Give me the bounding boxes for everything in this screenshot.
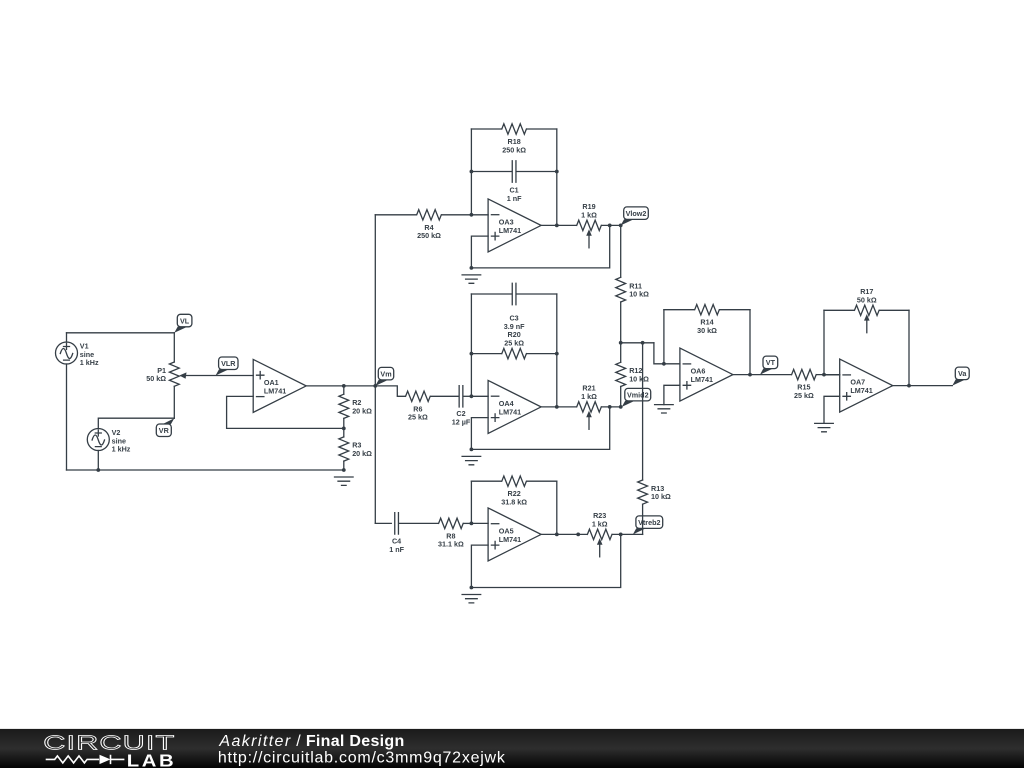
resistor R4 [417,210,442,220]
svg-text:20 kΩ: 20 kΩ [352,449,372,458]
node VLR [216,357,238,376]
wire OA4 + stub [471,418,488,450]
wire summing node horizontal [621,342,654,344]
svg-text:20 kΩ: 20 kΩ [352,406,372,415]
wire R3 top lead [343,428,345,437]
node VT [760,356,778,375]
wire Vm bus to C4 [375,522,391,524]
svg-text:Va: Va [958,369,967,378]
svg-text:LM741: LM741 [499,226,521,235]
resistor R6 [406,391,431,401]
wire Vm to R6 step [375,386,405,396]
R19 wiper arrow [586,229,592,248]
node feedback R2 R3 junction [342,427,346,431]
wire P1 top lead [173,333,175,362]
CircuitLab logo wordmark CIRCUIT [43,731,175,755]
svg-text:25 kΩ: 25 kΩ [504,338,524,347]
op-amp OA6 [680,348,733,401]
op-amp OA1 [253,359,306,412]
node mid filter ground junction [470,448,474,452]
wire V2 top [98,418,174,428]
svg-text:250 kΩ: 250 kΩ [502,145,526,154]
ground OA6 [655,405,674,413]
op-amp OA7 [840,359,893,412]
svg-text:30 kΩ: 30 kΩ [697,326,717,335]
wire R15 to OA7 [817,374,840,376]
op-amp OA3 [488,199,541,252]
potentiometer R23 [587,529,612,539]
node C1 right junction [555,170,559,174]
wire R19 to Vlow2 node [602,224,621,226]
wire feedback right vertical bottom filter [556,481,558,534]
resistor R13 [638,480,648,504]
capacitor C4 [395,513,399,534]
wire R23 to Vtreb2 node [613,533,643,535]
capacitor C1 [512,161,516,182]
ground mid filter [462,456,481,464]
resistor R11 [616,277,626,302]
svg-text:10 kΩ: 10 kΩ [629,374,649,383]
wire OA5 + stub [471,545,488,587]
svg-text:10 kΩ: 10 kΩ [629,290,649,299]
wire R4 to OA3 - node [442,214,471,216]
voltage source V2 [87,429,109,451]
node Vlow2 [621,207,649,226]
resistor R15 [792,369,817,379]
wire C1 right lead [517,171,557,173]
node R19 ground branch junction [608,224,612,228]
wire R12 top lead [620,343,622,363]
svg-text:VLR: VLR [221,359,236,368]
wire R20 left lead [471,353,501,355]
svg-text:1 kHz: 1 kHz [80,358,99,367]
node R11 R12 junction [619,341,623,345]
resistor R22 [502,476,527,486]
node OA7 inverting junction [822,373,826,377]
wire R20 right lead [527,353,557,355]
voltage source V1 [56,342,78,364]
potentiometer P1 [169,362,179,386]
wire R17 left lead [824,309,854,311]
svg-text:LM741: LM741 [264,386,286,395]
node C1 left junction [470,170,474,174]
svg-text:VT: VT [766,358,776,367]
wire OA6 output [733,374,791,376]
wire OA4 output [541,406,576,408]
svg-text:1 kHz: 1 kHz [112,445,131,454]
wire R2 bottom lead [343,418,345,428]
wire C2 to OA4 - node [464,395,472,397]
wire R14 left lead [664,309,694,311]
wire R18 left lead [471,128,501,130]
node Va [952,367,969,386]
wire OA7 output [893,385,953,387]
node OA4 output junction [555,405,559,409]
node Vmid2 junction [619,405,623,409]
node OA5 output wire junction [576,533,580,537]
ground top filter [462,275,481,283]
wire R17 left vertical [823,310,825,374]
wire R22 left lead [471,480,501,482]
wire R21 ground branch [471,407,609,450]
node Vmid2 [622,388,651,407]
resistor R14 [695,305,720,315]
wire R6 to C2 [431,395,458,397]
svg-text:1 nF: 1 nF [389,545,404,554]
R17 wiper arrow [864,314,870,333]
node Vlow2 junction [619,224,623,228]
svg-text:1 nF: 1 nF [507,194,522,203]
node R13 branch junction [641,341,645,345]
wire R14 right lead [720,309,750,311]
wire OA1 - feedback [227,396,344,428]
wire P1 bottom lead [173,386,175,418]
capacitor C2 [459,386,463,407]
node R23 ground branch junction [619,533,623,537]
footer bar [0,729,1024,768]
resistor R20 [502,348,527,358]
wire R13 branch vertical [642,343,644,480]
node R2 top junction [342,384,346,388]
wire R14 right vertical [749,310,751,375]
svg-text:25 kΩ: 25 kΩ [794,391,814,400]
node OA7 output junction [907,384,911,388]
wire C1 left lead [471,171,511,173]
svg-text:50 kΩ: 50 kΩ [857,295,877,304]
CircuitLab logo wordmark LAB [127,752,176,771]
R23 wiper arrow [597,538,603,557]
wire P1 wiper to OA1 + [185,375,253,377]
svg-text:12 µF: 12 µF [452,418,471,427]
wire OA5 - stub [471,522,488,524]
svg-text:10 kΩ: 10 kΩ [651,492,671,501]
wire OA3 + stub [471,236,488,268]
svg-text:1 kΩ: 1 kΩ [592,519,608,528]
wire OA6 + stub [664,385,680,404]
node Vm junction [373,384,377,388]
wire R17 right vertical [908,310,910,385]
wire R12 bottom lead [620,387,622,407]
node OA3 inverting input [470,213,474,217]
node R20 left junction [470,352,474,356]
svg-text:http://circuitlab.com/c3mm9q72: http://circuitlab.com/c3mm9q72xejwk [218,749,506,766]
capacitor C3 [512,283,516,304]
svg-text:50 kΩ: 50 kΩ [146,374,166,383]
wire R13 bottom lead [642,504,644,534]
wire R21 to Vmid2 node [602,406,621,408]
wire ground rail [67,469,344,471]
svg-text:LM741: LM741 [691,375,713,384]
wire R18 right lead [527,128,557,130]
resistor R8 [439,518,464,528]
potentiometer R21 [577,402,602,412]
op-amp OA5 [488,508,541,561]
wire OA5 output [541,533,587,535]
node Vm [375,367,393,386]
svg-text:25 kΩ: 25 kΩ [408,413,428,422]
wire R19 ground branch [471,225,609,268]
wire R23 ground branch [471,534,620,587]
node top filter ground junction [470,266,474,270]
wire Vm bus to R4 [375,214,416,216]
svg-text:31.8 kΩ: 31.8 kΩ [501,498,527,507]
wire OA4 - stub [471,395,488,397]
svg-text:Vmid2: Vmid2 [627,391,649,400]
ground below R3 [335,477,354,485]
svg-text:Vlow2: Vlow2 [626,209,647,218]
node OA4 inverting input [470,394,474,398]
potentiometer R19 [577,220,602,230]
svg-text:1 kΩ: 1 kΩ [581,392,597,401]
wire C3 left lead [471,293,511,295]
wire Vlow2 to R11 [620,225,622,277]
CircuitLab logo resistor-diode squiggle [46,756,99,763]
node VR [156,418,174,436]
node R21 ground branch junction [608,405,612,409]
wire V1 top to P1 top [67,332,175,334]
potentiometer R17 [855,305,880,315]
svg-text:1 kΩ: 1 kΩ [581,210,597,219]
node OA5 output junction [555,533,559,537]
wire C3 right lead [517,293,557,295]
resistor R12 [616,362,626,386]
node VL [174,314,192,333]
wire R3 bottom lead [343,461,345,470]
wire OA1 output [306,385,375,387]
wire V2 bottom stub [97,451,99,471]
wire feedback right vertical top filter [556,129,558,225]
node V2 bottom junction [96,468,100,472]
wire OA3 - stub [471,214,488,216]
node R20 right junction [555,352,559,356]
wire OA7 + stub [824,396,840,423]
svg-text:VL: VL [180,316,190,325]
wire R22 right lead [527,480,557,482]
wire feedback right vertical mid filter [556,294,558,407]
wire feedback left vertical mid filter [470,294,472,396]
wire summing to OA6 - [654,343,680,364]
node OA3 output junction [555,224,559,228]
svg-text:Aakritter / Final Design: Aakritter / Final Design [218,733,404,750]
wire R14 left vertical [663,310,665,364]
R21 wiper arrow [586,411,592,430]
wire R17 right lead [880,309,909,311]
svg-text:31.1 kΩ: 31.1 kΩ [438,540,464,549]
svg-text:VR: VR [159,426,170,435]
svg-text:LM741: LM741 [499,535,521,544]
svg-text:250 kΩ: 250 kΩ [417,231,441,240]
node Vtreb2 [633,516,663,535]
wire V1 top stub [66,333,68,342]
wire R11 bottom lead [620,302,622,343]
wire OA3 output [541,224,576,226]
wire feedback left vertical bottom filter [470,481,472,523]
node OA6 output junction [748,373,752,377]
svg-text:LAB: LAB [127,752,176,768]
svg-text:Vm: Vm [380,370,391,379]
op-amp OA4 [488,380,541,433]
resistor R3 [339,437,349,461]
svg-text:LM741: LM741 [850,386,872,395]
resistor R18 [502,124,527,134]
node R14 left junction [662,362,666,366]
wire OA7 - stub [824,374,840,376]
P1 wiper arrow [179,372,186,378]
node OA5 inverting input [470,522,474,526]
ground OA7 [815,423,834,431]
svg-text:LM741: LM741 [499,407,521,416]
wire R8 to OA5 - node [464,522,471,524]
wire V1 bottom [66,364,68,470]
node R3 ground junction [342,468,346,472]
resistor R2 [339,394,349,418]
wire C4 to R8 [399,522,438,524]
wire R2 top lead [343,386,345,394]
node bottom filter ground junction [470,586,474,590]
wire feedback left vertical top filter [470,129,472,215]
ground bottom filter [462,595,481,603]
wire Vm bus vertical [374,215,376,524]
svg-text:Vtreb2: Vtreb2 [638,518,660,527]
